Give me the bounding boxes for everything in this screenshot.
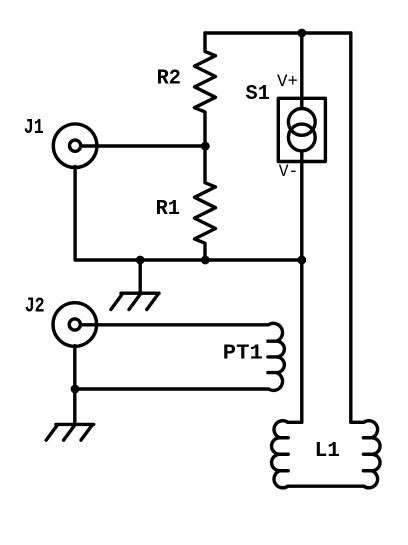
current source S1 circles [288, 109, 315, 151]
resistor R1 [195, 146, 216, 260]
svg-text:V+: V+ [277, 72, 298, 92]
inductor L1 right winding [351, 421, 380, 488]
connector J2 [53, 303, 97, 347]
wire J1 tip to divider node [81, 144, 206, 147]
connector J1 [53, 124, 97, 168]
ground chassis GND1 [111, 260, 159, 310]
node rail-S1 junction [297, 256, 306, 265]
node J2-PT1 junction [71, 385, 80, 394]
PT1 winding ticks [268, 341, 277, 372]
L1 left winding ticks [280, 438, 288, 471]
wire right leg from top rail to L1 [349, 33, 352, 422]
wire J1 shell to ground rail [75, 167, 302, 261]
svg-text:J1: J1 [24, 116, 44, 140]
wire top rail (V+ net) [205, 31, 351, 34]
svg-text:R2: R2 [157, 67, 181, 91]
wire J2 tip to PT1 with top hook [80, 323, 282, 341]
node top junction [297, 29, 306, 38]
svg-text:PT1: PT1 [223, 342, 263, 366]
wire S1 bottom lead down to L1 [300, 152, 303, 422]
svg-text:S1: S1 [246, 82, 270, 106]
svg-text:V-: V- [279, 162, 299, 182]
wire J2 shell down to ground [73, 346, 76, 425]
node rail-ground junction [136, 256, 145, 265]
resistor R2 [195, 33, 216, 146]
node divider junction [201, 142, 210, 151]
svg-text:J2: J2 [25, 295, 45, 319]
L1 right winding ticks [363, 438, 371, 471]
node rail-R1 junction [201, 256, 210, 265]
wire L1 bottom [288, 485, 364, 488]
current source S1 box [278, 98, 325, 161]
svg-text:L1: L1 [315, 439, 340, 463]
wire PT1 bottom return to J2 ground [75, 387, 268, 390]
wire S1 top lead [300, 33, 303, 107]
transformer PT1 winding bumps [268, 341, 284, 390]
ground chassis GND2 [46, 424, 93, 440]
svg-text:R1: R1 [156, 197, 180, 221]
inductor L1 left winding [272, 421, 302, 488]
